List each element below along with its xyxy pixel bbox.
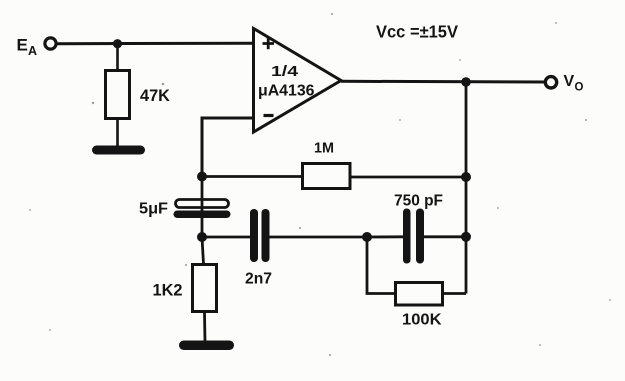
junction rail/cap wire	[461, 232, 471, 242]
capacitor 5uF top plate	[176, 200, 229, 208]
junction input/47K	[113, 39, 122, 48]
junction rail/1M	[461, 172, 471, 182]
junction 100K tap	[362, 232, 372, 242]
resistor 100K	[396, 283, 443, 306]
wire 5uF vertical	[201, 177, 204, 238]
svg-text:47K: 47K	[140, 87, 170, 105]
junction output/rail	[461, 77, 471, 87]
rail right vertical	[465, 82, 468, 294]
capacitor 5uF bottom plate	[174, 211, 231, 219]
wire 1K2 bottom	[203, 313, 206, 342]
wire 2n7 to junction	[269, 236, 368, 239]
wire EA to op-amp + input	[57, 42, 254, 46]
wire junction to 1K2	[202, 237, 204, 264]
ground (1K2)	[179, 341, 234, 351]
wire down to 100K	[367, 237, 395, 294]
wire 47K bottom	[116, 120, 119, 147]
wire op-amp output	[341, 80, 546, 84]
svg-text:A: A	[28, 44, 37, 58]
capacitor 2n7 right plate	[262, 209, 270, 262]
capacitor 750pF right plate	[416, 209, 424, 264]
junction inverting/1M	[197, 172, 207, 182]
capacitor 2n7 left plate	[250, 209, 258, 262]
svg-text:μA4136: μA4136	[258, 83, 315, 100]
node EA label	[17, 36, 38, 59]
svg-text:2n7: 2n7	[245, 271, 272, 288]
junction 5uF/cap wire	[197, 232, 207, 242]
wire 47K top	[116, 44, 119, 70]
svg-text:1/4: 1/4	[271, 63, 299, 80]
wire op-amp inverting input	[202, 118, 254, 176]
op-amp + symbol	[263, 38, 275, 49]
wire 750pF to rail	[423, 235, 466, 238]
svg-text:1M: 1M	[314, 141, 334, 157]
svg-text:5μF: 5μF	[139, 201, 168, 218]
svg-text:V: V	[564, 73, 575, 90]
svg-text:Vcc =±15V: Vcc =±15V	[376, 22, 458, 42]
svg-text:750 pF: 750 pF	[394, 193, 443, 210]
svg-text:E: E	[17, 36, 28, 55]
wire 100K to rail	[444, 292, 466, 295]
resistor 47K	[106, 71, 130, 119]
wire to 2n7	[202, 236, 251, 239]
output terminal	[545, 77, 556, 88]
svg-text:100K: 100K	[402, 312, 442, 329]
wire 1M right	[352, 176, 467, 179]
op-amp U1 triangle	[254, 29, 342, 133]
input terminal	[45, 38, 56, 49]
capacitor 750pF left plate	[403, 209, 411, 264]
wire 1M left	[202, 175, 302, 178]
ground (47K)	[92, 146, 145, 155]
resistor 1K2	[193, 265, 217, 312]
op-amp - symbol	[264, 114, 274, 117]
svg-text:O: O	[575, 82, 584, 94]
node VO label	[564, 73, 584, 94]
resistor 1M	[303, 164, 351, 189]
wire junction to 750pF	[367, 235, 404, 238]
svg-text:1K2: 1K2	[153, 282, 183, 300]
